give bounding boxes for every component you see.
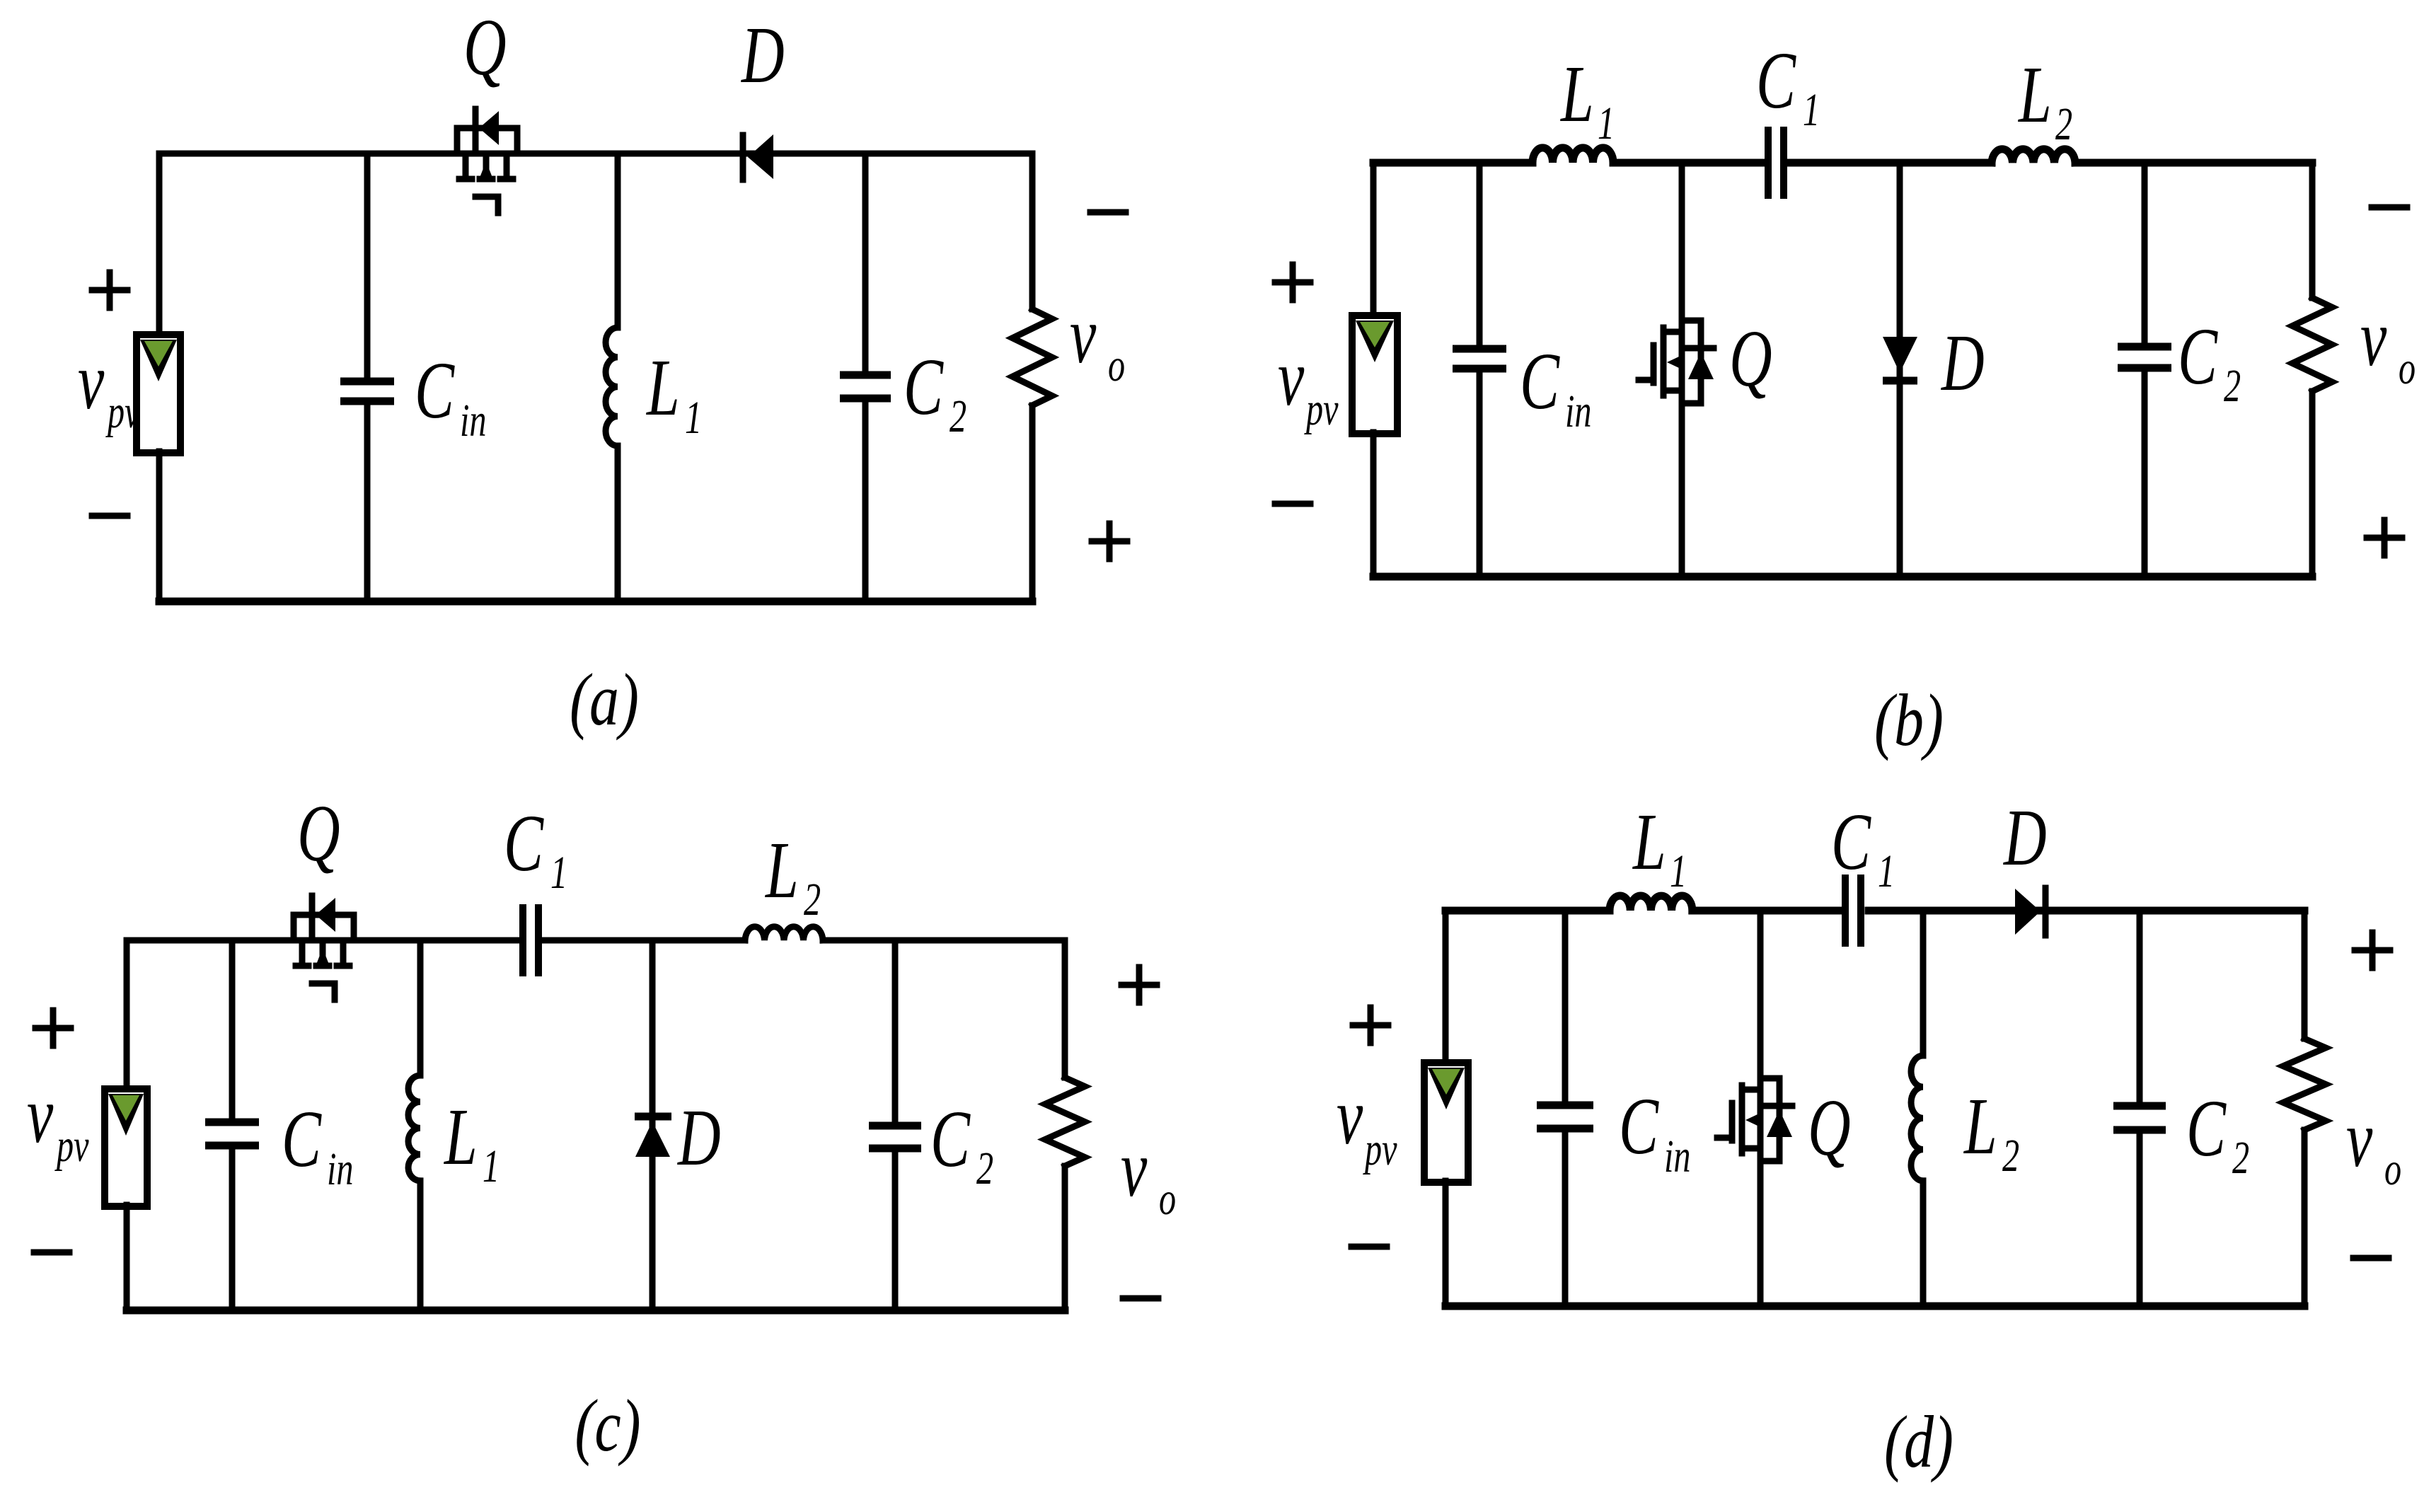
svg-text:D: D (676, 1092, 720, 1182)
svg-text:1: 1 (1803, 85, 1820, 136)
resistor load (a) (1012, 309, 1052, 405)
PV source vpv (c) (105, 1089, 147, 1206)
label − (a input −) (92, 513, 127, 519)
svg-text:C: C (504, 797, 545, 888)
wire: (a) L1 branch with inductor L1 (615, 154, 621, 328)
label − (a output −) (1090, 209, 1126, 216)
svg-text:D: D (1940, 317, 1984, 408)
label − (b input −) (1275, 501, 1310, 507)
svg-text:C: C (1831, 796, 1872, 887)
svg-text:v: v (2346, 1093, 2373, 1184)
wire: (d) L2 branch with inductor (1920, 911, 1927, 1056)
label + (b input +) (1275, 265, 1310, 300)
label L1 (d) (1632, 796, 1687, 897)
inductor L2 (c) (745, 927, 823, 940)
wire: Cin (c) branch upper (229, 940, 236, 1119)
wire: C2 (b) branch upper (2142, 163, 2148, 344)
label vpv (c) (27, 1069, 89, 1172)
svg-text:C: C (2178, 311, 2219, 401)
svg-text:2: 2 (804, 875, 821, 925)
label Cin (a) (415, 345, 486, 446)
label vo (a) (1070, 289, 1125, 391)
wire: (d) left branch lower (1443, 1181, 1449, 1306)
svg-text:2: 2 (950, 391, 966, 442)
capacitor C1 (c) (series) (523, 904, 538, 976)
wire: (a) left branch lower (156, 451, 163, 601)
svg-text:o: o (1108, 340, 1125, 391)
wire: (a) right branch lower (1029, 405, 1036, 601)
label Cin (d) (1619, 1080, 1690, 1182)
label L2 (d) (1963, 1080, 2019, 1182)
svg-text:C: C (1520, 335, 1561, 426)
wire: (c) left branch lower (124, 1205, 130, 1310)
wire: (d) right branch lower (2302, 1130, 2308, 1306)
label − (c output −) (1123, 1295, 1158, 1302)
wire: (a) bottom rail (159, 598, 1032, 606)
wire: (d) top rail L1-to-C1 (1692, 907, 1838, 915)
svg-text:in: in (460, 396, 486, 446)
wire: (b) right branch lower (2309, 391, 2316, 577)
label C2 (a) (904, 341, 966, 442)
wire: (c) L1 branch lower (417, 1181, 424, 1310)
transistor Q (c) (MOSFET switch) (294, 896, 354, 1000)
svg-text:(b): (b) (1874, 679, 1944, 761)
svg-text:L: L (764, 824, 798, 915)
resistor load (d) (2283, 1039, 2326, 1130)
wire: (a) L1 branch lower (615, 446, 621, 601)
wire: Cin (c) branch lower (229, 1148, 236, 1310)
wire: (a) top rail (159, 151, 1032, 157)
wire: (c) bottom rail (127, 1307, 1065, 1315)
svg-text:v: v (27, 1069, 54, 1160)
svg-text:D: D (2002, 792, 2046, 882)
wire: (c) L1 branch with inductor (417, 940, 424, 1075)
svg-text:in: in (1565, 386, 1591, 437)
inductor L1 (b) (1533, 148, 1613, 163)
capacitor C1 (b) (series) (1768, 127, 1784, 199)
svg-text:C: C (415, 345, 456, 435)
label D (c) (676, 1092, 720, 1182)
label L1 (b) (1559, 48, 1615, 149)
wire: (b) D branch (1897, 163, 1903, 577)
wire: C2 (a) branch lower (862, 401, 869, 601)
label vpv (d) (1337, 1070, 1397, 1175)
label + (c output +) (1121, 967, 1157, 1003)
wire: C2 (d) branch upper (2137, 911, 2143, 1103)
svg-text:1: 1 (550, 848, 567, 899)
svg-text:in: in (1664, 1131, 1690, 1182)
capacitor C2 (c) (869, 1126, 921, 1148)
label + (b output +) (2367, 520, 2402, 555)
wire: (c) top rail C1-to-L2 (542, 937, 745, 944)
svg-text:L: L (1632, 796, 1666, 887)
svg-text:2: 2 (2232, 1133, 2249, 1184)
svg-text:o: o (1159, 1174, 1176, 1225)
label L1 (c) (443, 1091, 500, 1192)
label + (a output +) (1092, 524, 1127, 559)
label Cin (c) (282, 1093, 353, 1195)
svg-text:1: 1 (1878, 846, 1895, 897)
wire: Cin (d) branch upper (1562, 911, 1569, 1102)
label + (d input +) (1353, 1008, 1388, 1043)
svg-text:v: v (2360, 292, 2387, 383)
svg-text:L: L (1559, 48, 1593, 139)
wire: (c) right branch upper (1062, 940, 1068, 1078)
capacitor C1 (d) (series) (1845, 875, 1861, 947)
wire: (b) Q branch (1679, 163, 1685, 577)
caption (b) (1874, 679, 1944, 761)
label Cin (b) (1520, 335, 1591, 437)
capacitor Cin (b) (1453, 349, 1506, 369)
wire: (d) top rail C1-to-right (1869, 907, 2304, 915)
wire: (d) right branch upper (2302, 911, 2308, 1039)
wire: (b) bottom rail (1373, 573, 2312, 581)
svg-text:C: C (904, 341, 945, 432)
label vo (c) (1121, 1123, 1176, 1225)
svg-text:1: 1 (483, 1141, 500, 1192)
wire: (b) top rail L1-to-C1 (1613, 159, 1765, 167)
svg-text:C: C (930, 1093, 971, 1184)
transistor Q (b) (MOSFET switch) (1639, 321, 1714, 403)
svg-text:2: 2 (976, 1143, 993, 1194)
svg-text:pv: pv (105, 387, 140, 438)
wire: (d) L2 branch lower (1920, 1181, 1927, 1306)
wire: C2 (d) branch lower (2137, 1133, 2143, 1306)
svg-text:v: v (1070, 289, 1097, 380)
wire: (b) top rail right (2075, 159, 2312, 167)
capacitor C2 (a) (840, 375, 891, 398)
label D (a) (740, 9, 784, 100)
label Q (a) (463, 1, 507, 92)
label L1 (a) (645, 342, 702, 444)
wire: Cin (d) branch lower (1562, 1131, 1569, 1306)
svg-text:L: L (645, 342, 679, 432)
wire: (a) left branch upper (156, 154, 163, 336)
label + (a input +) (92, 272, 127, 308)
label − (d input −) (1351, 1244, 1387, 1250)
svg-text:1: 1 (1598, 98, 1615, 149)
label vpv (a) (78, 335, 140, 438)
label C2 (b) (2178, 311, 2241, 412)
svg-text:Q: Q (1729, 313, 1772, 403)
svg-text:1: 1 (1670, 846, 1687, 897)
label − (b output −) (2372, 204, 2407, 211)
diode D (a) (743, 134, 773, 180)
diode D (b) (points down) (1883, 337, 1917, 381)
svg-text:(d): (d) (1884, 1400, 1953, 1483)
wire: (b) top rail segments (1373, 159, 1533, 167)
svg-text:o: o (2384, 1144, 2401, 1195)
svg-text:v: v (78, 335, 105, 426)
wire: (d) bottom rail (1445, 1303, 2304, 1310)
diode D (c) (points up) (635, 1116, 671, 1157)
label + (d output +) (2355, 933, 2390, 968)
label D (b) (1940, 317, 1984, 408)
wire: (c) left branch upper (124, 940, 130, 1090)
wire: C2 (c) branch lower (892, 1151, 899, 1310)
svg-text:v: v (1278, 332, 1305, 422)
capacitor Cin (c) (205, 1122, 259, 1145)
capacitor Cin (d) (1537, 1105, 1593, 1129)
label − (c input −) (34, 1250, 69, 1256)
label Q (d) (1808, 1082, 1851, 1172)
label vo (b) (2360, 292, 2416, 394)
wire: C2 (b) branch lower (2142, 371, 2148, 577)
label Q (b) (1729, 313, 1772, 403)
svg-text:pv: pv (54, 1121, 89, 1172)
wire: Cin (b) branch lower (1477, 371, 1483, 577)
diode D (d) (points right) (2015, 888, 2045, 935)
svg-text:Q: Q (297, 787, 340, 878)
wire: (c) D branch (650, 940, 656, 1310)
resistor load (b) (2292, 298, 2332, 391)
wire: (c) top rail right (823, 937, 1065, 944)
PV source vpv (d) (1424, 1063, 1468, 1182)
label D (d) (2002, 792, 2046, 882)
svg-text:Q: Q (463, 1, 507, 92)
label L2 (b) (2017, 49, 2072, 150)
svg-text:C: C (1619, 1080, 1660, 1171)
caption (a) (570, 658, 639, 741)
svg-text:L: L (2017, 49, 2051, 139)
svg-text:2: 2 (2224, 361, 2241, 412)
svg-text:pv: pv (1363, 1124, 1397, 1175)
label C1 (d) (1831, 796, 1895, 897)
svg-text:L: L (443, 1091, 477, 1182)
wire: (c) right branch lower (1062, 1166, 1068, 1310)
capacitor Cin (a) (340, 381, 394, 401)
svg-text:2: 2 (2055, 99, 2072, 150)
svg-text:v: v (1121, 1123, 1148, 1213)
svg-text:2: 2 (2002, 1131, 2019, 1182)
label Q (c) (297, 787, 340, 878)
caption (c) (575, 1384, 640, 1467)
svg-text:C: C (282, 1093, 323, 1184)
PV source vpv (b) (1352, 316, 1397, 434)
resistor load (c) (1045, 1078, 1085, 1166)
wire: (b) top rail C1-to-L2 (1787, 159, 1992, 167)
label L2 (c) (764, 824, 821, 925)
caption (d) (1884, 1400, 1953, 1483)
svg-text:o: o (2399, 343, 2416, 394)
svg-text:v: v (1337, 1070, 1363, 1161)
capacitor C2 (d) (2113, 1106, 2166, 1130)
label vpv (b) (1278, 332, 1339, 435)
inductor L1 (c) (408, 1075, 420, 1181)
wire: (c) top rail left (127, 937, 519, 944)
wire: Cin (a) branch upper (364, 154, 371, 379)
wire: C2 (c) branch upper (892, 940, 899, 1123)
wire: (d) Q branch (1758, 911, 1764, 1306)
label C1 (c) (504, 797, 567, 899)
wire: (b) left branch lower (1370, 432, 1377, 577)
label C2 (c) (930, 1093, 993, 1194)
inductor L1 (d) (1610, 896, 1692, 911)
svg-text:(a): (a) (570, 658, 639, 741)
inductor L1 (a) (606, 328, 618, 446)
transistor Q (a) (MOSFET switch) (457, 109, 517, 213)
inductor L2 (b) (1992, 149, 2075, 163)
svg-text:C: C (2186, 1083, 2227, 1173)
wire: (a) right branch upper (1029, 154, 1036, 309)
wire: C2 (a) branch upper (862, 154, 869, 372)
wire: Cin (a) branch lower (364, 404, 371, 601)
wire: (b) left branch upper (1370, 163, 1377, 317)
svg-text:(c): (c) (575, 1384, 640, 1467)
capacitor C2 (b) (2118, 347, 2171, 368)
wire: (d) top rail left (1445, 907, 1610, 915)
svg-text:in: in (327, 1144, 353, 1195)
label vo (d) (2346, 1093, 2401, 1195)
label + (c input +) (35, 1010, 71, 1046)
svg-text:Q: Q (1808, 1082, 1851, 1172)
wire: (d) left branch upper (1443, 911, 1449, 1064)
label C1 (b) (1756, 35, 1820, 136)
label − (d output −) (2353, 1255, 2389, 1262)
svg-text:C: C (1756, 35, 1797, 125)
wire: (b) right branch upper (2309, 163, 2316, 298)
svg-text:D: D (740, 9, 784, 100)
svg-text:L: L (1963, 1080, 1997, 1171)
wire: Cin (b) branch upper (1477, 163, 1483, 346)
svg-text:1: 1 (685, 393, 702, 444)
transistor Q (d) (MOSFET switch) (1717, 1078, 1792, 1161)
svg-text:pv: pv (1304, 384, 1339, 435)
inductor L2 (d) (1911, 1056, 1923, 1181)
PV source vpv (a) (137, 335, 180, 453)
label C2 (d) (2186, 1083, 2249, 1184)
